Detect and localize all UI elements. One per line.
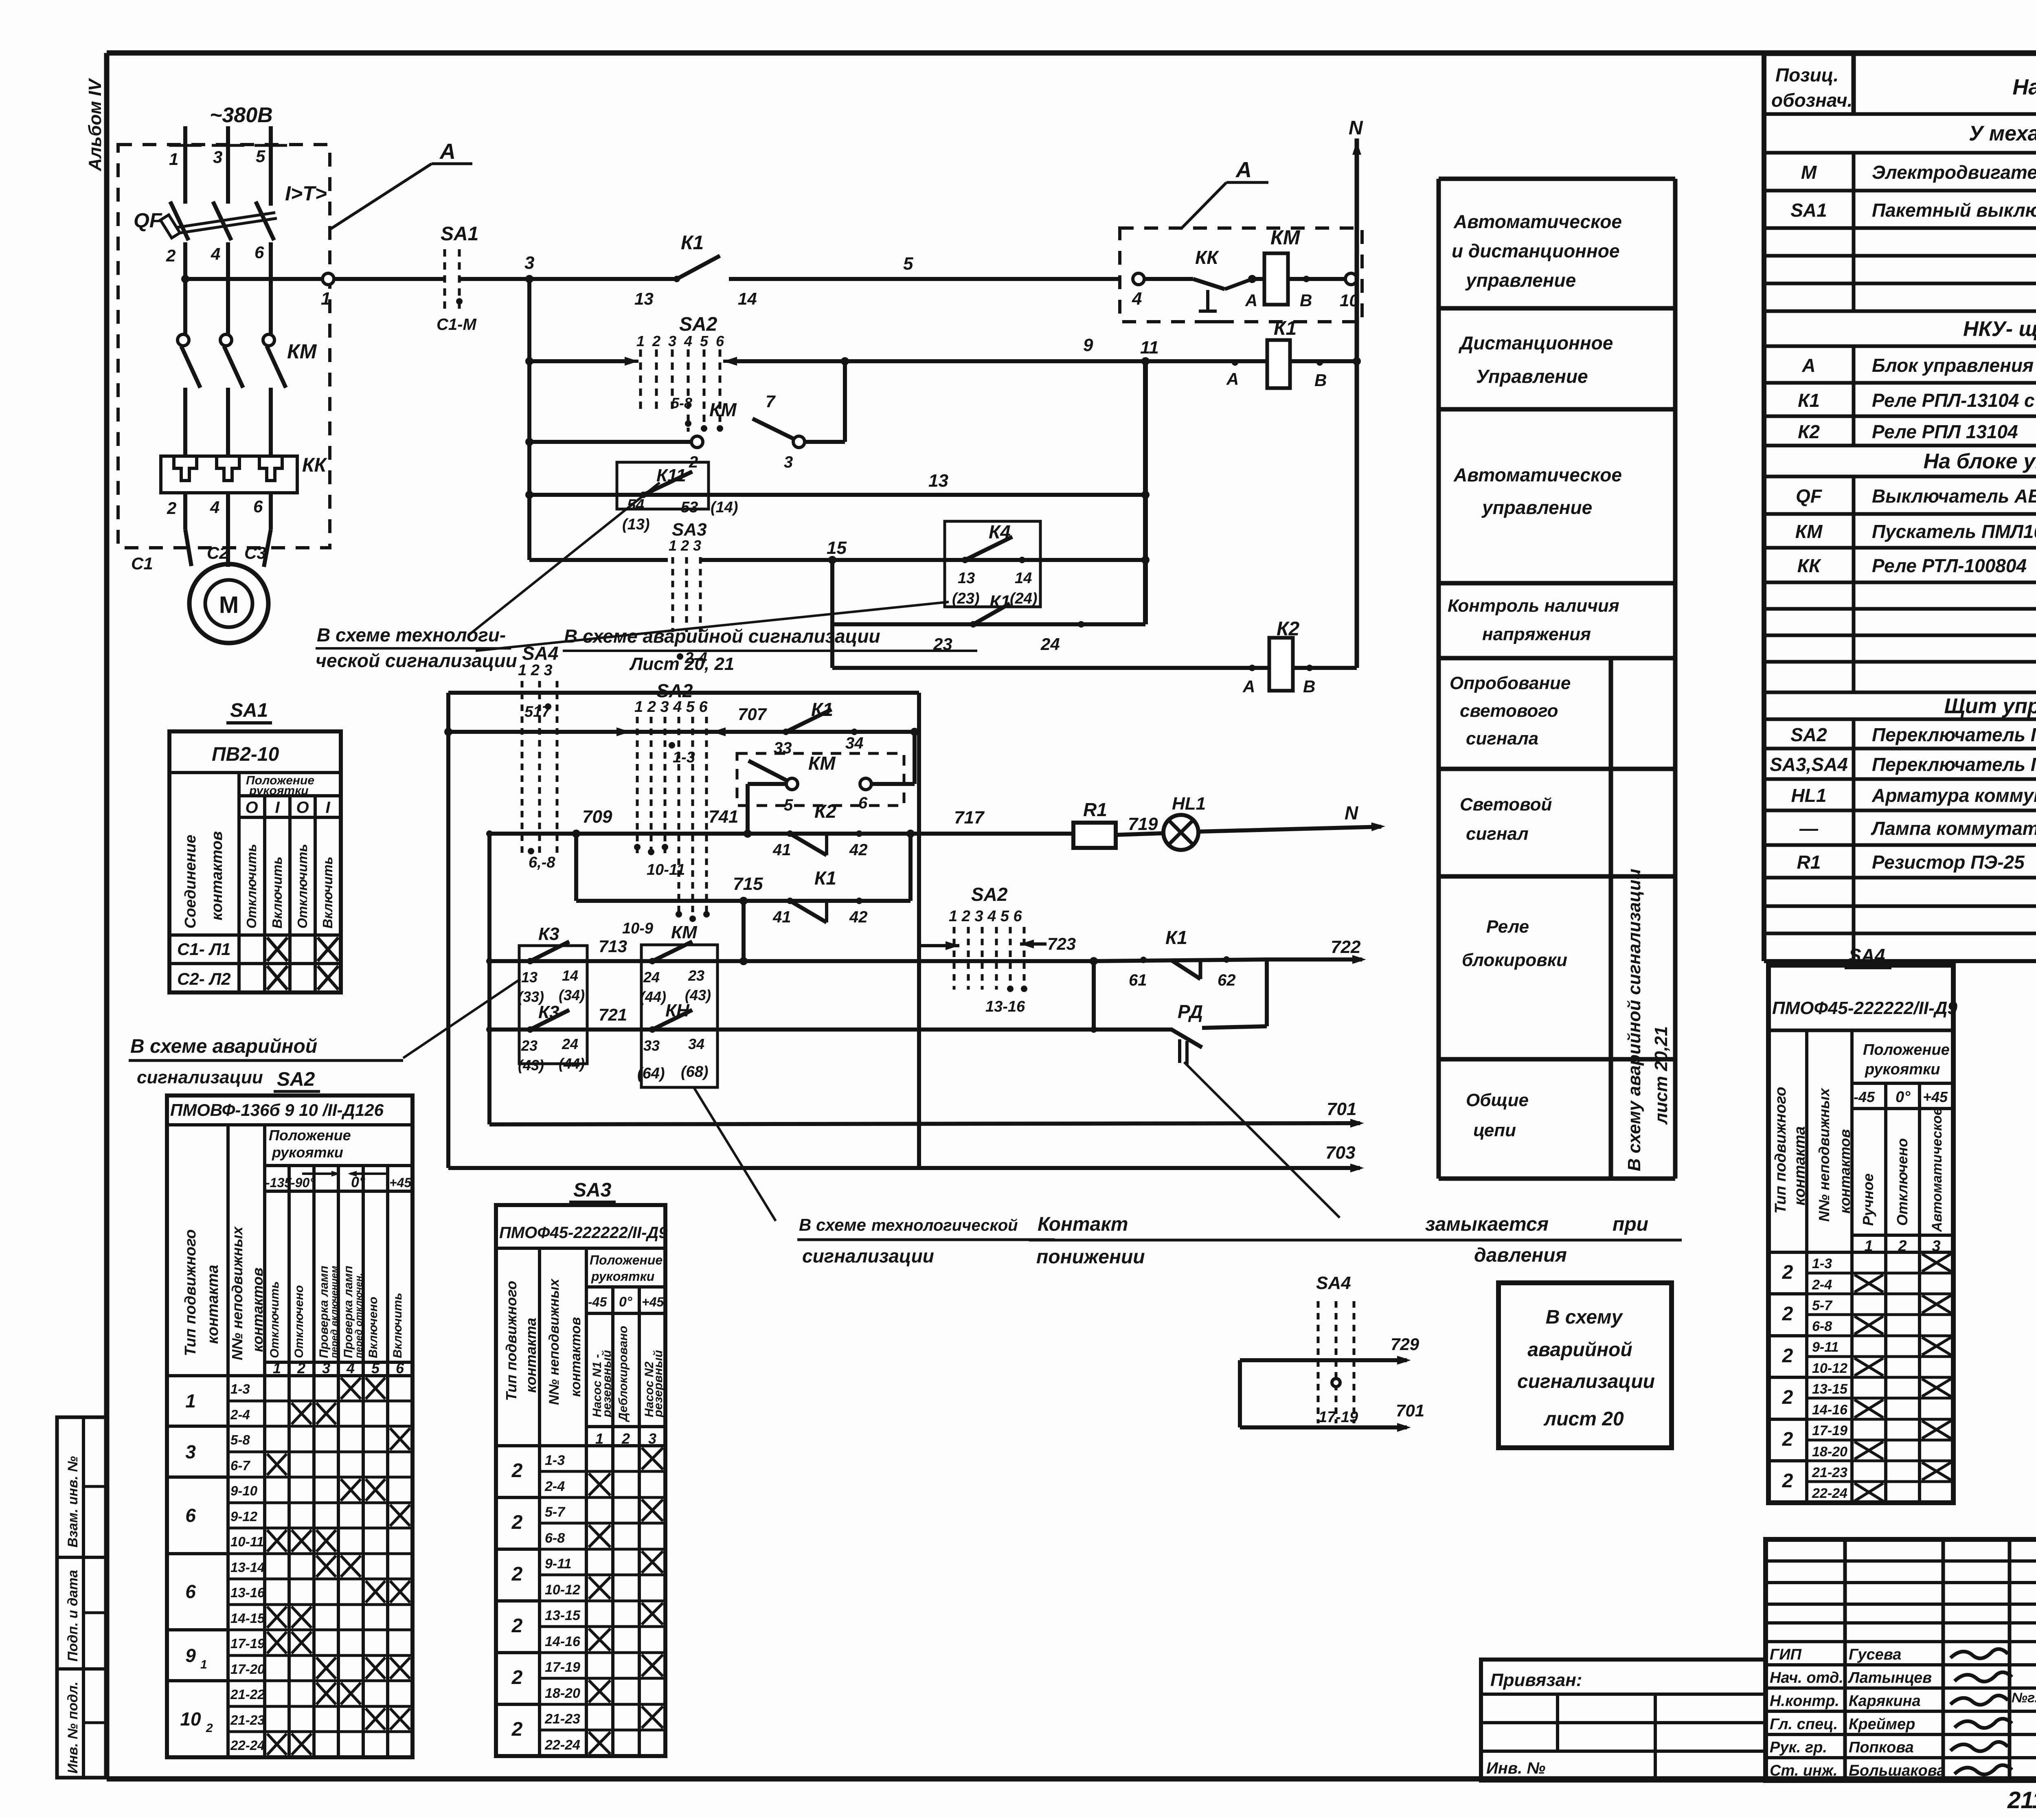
svg-text:13: 13 [928,471,948,491]
svg-text:6: 6 [185,1505,196,1526]
svg-text:QF: QF [1796,485,1823,507]
svg-text:SА1: SА1 [230,700,268,721]
svg-text:703: 703 [1325,1143,1355,1163]
svg-text:-135: -135 [265,1175,292,1190]
svg-text:SА2: SА2 [277,1069,315,1090]
contact KM seal-in 5-6 [737,753,904,806]
svg-text:К1: К1 [1165,927,1187,948]
svg-text:10-12: 10-12 [545,1582,580,1598]
svg-text:КМ: КМ [1270,226,1301,249]
svg-text:рукоятки: рукоятки [591,1269,654,1284]
svg-text:Большакова: Большакова [1849,1762,1945,1779]
svg-text:В схеме технологи-: В схеме технологи- [317,624,506,645]
svg-text:N№ неподвижных: N№ неподвижных [229,1226,246,1360]
wire rung 707 [448,730,919,734]
svg-text:Отключить: Отключить [295,844,310,929]
svg-text:717: 717 [954,808,985,828]
svg-text:контакта: контакта [1791,1126,1808,1205]
svg-text:Реле РПЛ-13104 с приставкой: Реле РПЛ-13104 с приставкой ПКЛ-1104 [1872,390,2036,411]
svg-text:С1- Л1: С1- Л1 [177,940,231,959]
svg-text:замыкается: замыкается [1425,1214,1549,1235]
svg-text:SА2: SА2 [679,314,717,335]
svg-text:Гл. спец.: Гл. спец. [1770,1716,1838,1733]
svg-text:5: 5 [903,254,913,274]
svg-text:К1: К1 [681,232,704,254]
svg-text:Переключатель ПМОФ45-222222: Переключатель ПМОФ45-222222 /II-Д9 [1872,754,2036,775]
svg-text:Отключено: Отключено [292,1285,306,1358]
svg-text:42: 42 [849,841,868,859]
function box column [1439,177,1675,181]
svg-text:2: 2 [297,1360,305,1377]
svg-text:61: 61 [1129,971,1147,989]
svg-text:21-23: 21-23 [544,1711,580,1727]
svg-text:2: 2 [1782,1345,1793,1367]
parts list table [1762,54,1766,961]
svg-text:Положение: Положение [269,1127,351,1144]
svg-text:2: 2 [511,1460,523,1482]
svg-text:управление: управление [1465,270,1576,291]
svg-text:сигнализации: сигнализации [1517,1371,1655,1392]
svg-text:R1: R1 [1083,799,1107,820]
svg-text:перед включением: перед включением [329,1266,340,1358]
svg-text:Тип подвижного: Тип подвижного [182,1229,199,1356]
svg-text:3: 3 [784,453,793,471]
svg-text:10-11: 10-11 [230,1534,264,1549]
svg-text:R1: R1 [1797,852,1821,873]
svg-text:Включено: Включено [366,1297,380,1358]
wire rung 715 [574,834,578,901]
svg-text:Выключатель АЕ2016-10НУЗ: Выключатель АЕ2016-10НУЗ [1872,485,2036,507]
svg-text:17-19: 17-19 [1812,1423,1847,1438]
svg-text:Гусева: Гусева [1849,1646,1901,1663]
svg-text:13-15: 13-15 [1812,1381,1848,1397]
svg-text:лист 20: лист 20 [1543,1408,1624,1430]
terminal 10 [1345,273,1357,285]
dashed enclosure QF block [118,145,330,548]
svg-text:сигнализации: сигнализации [802,1245,934,1267]
svg-text:А: А [1226,369,1239,389]
terminal 4 [1133,273,1144,285]
svg-text:3: 3 [213,147,222,167]
svg-text:17-19: 17-19 [545,1660,580,1675]
phase wire L2 [226,126,230,204]
svg-text:Резистор ПЭ-25: Резистор ПЭ-25 [1872,852,2025,873]
svg-text:6: 6 [254,243,264,262]
svg-text:(44): (44) [559,1055,585,1072]
svg-text:Рук. гр.: Рук. гр. [1770,1739,1827,1756]
svg-text:сигнал: сигнал [1466,824,1529,844]
wire 701 [487,834,491,1124]
coil KM [1252,277,1264,281]
svg-text:(13): (13) [622,516,650,533]
svg-text:701: 701 [1327,1099,1356,1119]
svg-text:1: 1 [169,149,178,169]
svg-text:22-24: 22-24 [230,1738,265,1753]
svg-text:5: 5 [784,796,793,814]
svg-text:14-16: 14-16 [1812,1402,1848,1418]
svg-text:21-22: 21-22 [230,1687,265,1702]
svg-text:53: 53 [681,499,698,516]
svg-text:№г.: №г. [2012,1690,2036,1706]
svg-text:при: при [1613,1214,1648,1235]
svg-text:ПМОВФ-136б 9 10 /II-Д126: ПМОВФ-136б 9 10 /II-Д126 [170,1100,384,1120]
leader РД note [1184,1062,1340,1218]
svg-text:Управление: Управление [1476,366,1588,387]
svg-text:2: 2 [167,498,176,518]
svg-text:К3: К3 [538,924,559,944]
svg-text:HL1: HL1 [1791,785,1827,806]
svg-text:23: 23 [688,967,704,984]
svg-text:13: 13 [634,289,654,308]
svg-text:6-7: 6-7 [230,1458,250,1473]
svg-text:41: 41 [772,908,791,926]
svg-text:14-15: 14-15 [230,1611,265,1626]
svg-text:1: 1 [273,1360,281,1377]
svg-text:1: 1 [321,289,331,309]
svg-text:5-8: 5-8 [671,395,692,411]
svg-text:1 2 3 4 5 6: 1 2 3 4 5 6 [634,698,708,716]
svg-text:21-23: 21-23 [230,1712,265,1728]
node 11 [1141,357,1150,365]
svg-text:3: 3 [668,333,676,349]
wire rung 9 [527,279,531,560]
svg-text:SА1: SА1 [1790,200,1827,221]
svg-text:5: 5 [371,1360,380,1377]
svg-text:КМ: КМ [671,922,698,942]
svg-text:707: 707 [738,705,767,724]
svg-text:Световой: Световой [1460,795,1552,814]
svg-text:1-3: 1-3 [545,1453,565,1468]
svg-text:14-16: 14-16 [545,1634,581,1649]
svg-text:5-8: 5-8 [230,1432,250,1447]
svg-text:6,-8: 6,-8 [529,854,555,871]
svg-text:Арматура коммутаторной ламп: Арматура коммутаторной лампы АСКМ-3 [1871,785,2036,806]
svg-text:Опробование: Опробование [1450,673,1571,693]
svg-text:Щит управления: Щит управления [1944,694,2036,718]
relay box K11 [617,462,709,509]
svg-text:К2: К2 [1798,421,1820,442]
svg-text:Ст. инж.: Ст. инж. [1770,1762,1838,1779]
svg-text:понижении: понижении [1036,1246,1145,1268]
svg-text:давления: давления [1474,1245,1567,1266]
wire rung 721 [489,1027,1094,1032]
svg-text:14: 14 [738,289,757,308]
svg-text:9-10: 9-10 [230,1483,258,1498]
coil K1 [1145,359,1357,363]
svg-text:С2- Л2: С2- Л2 [177,969,231,988]
svg-text:ПМОФ45-222222/II-Д9: ПМОФ45-222222/II-Д9 [1772,998,1957,1018]
svg-text:О: О [245,799,258,817]
svg-text:0°: 0° [619,1294,632,1310]
svg-text:ПМОФ45-222222/II-Д9: ПМОФ45-222222/II-Д9 [499,1224,668,1242]
relay box K4 [945,521,1040,607]
svg-text:-45: -45 [588,1295,607,1309]
svg-text:КМ: КМ [287,340,317,363]
svg-text:21-23: 21-23 [1812,1465,1847,1480]
svg-text:Отключить: Отключить [268,1281,281,1358]
svg-text:На блоке управления: На блоке управления [1924,450,2036,473]
svg-text:7: 7 [766,392,776,411]
svg-text:и дистанционное: и дистанционное [1452,240,1619,261]
node 15 [828,556,836,564]
svg-text:резервный: резервный [600,1350,614,1418]
svg-text:КК: КК [302,454,328,476]
wires KM to KK [183,388,187,456]
left margin strip [57,1417,107,1778]
svg-text:3: 3 [322,1360,330,1377]
svg-text:контактов: контактов [208,831,226,920]
svg-text:Н.контр.: Н.контр. [1770,1693,1839,1710]
pressure switch RD branch [1092,961,1096,1030]
svg-text:13-16: 13-16 [985,998,1025,1015]
svg-text:9-11: 9-11 [1812,1339,1839,1355]
svg-text:719: 719 [1128,814,1158,834]
svg-text:2: 2 [1782,1262,1793,1283]
svg-text:Соединение: Соединение [182,835,199,929]
box to alarm circuit sheet 20 [1498,1283,1672,1448]
svg-text:А: А [1235,158,1252,182]
svg-text:В: В [1300,291,1312,310]
svg-text:I: I [325,799,330,817]
wire [729,359,1145,363]
svg-text:+45: +45 [389,1175,412,1190]
svg-text:2-4: 2-4 [1812,1277,1832,1293]
svg-text:N: N [1345,802,1358,823]
svg-text:N№ неподвижных: N№ неподвижных [1816,1087,1832,1222]
phase wire L3 [269,126,273,206]
svg-text:18-20: 18-20 [1812,1444,1847,1460]
svg-text:рукоятки: рукоятки [249,784,309,797]
node A [1248,275,1256,283]
svg-text:цепи: цепи [1473,1120,1516,1140]
wire rung 15 [529,558,668,562]
svg-text:КМ: КМ [808,753,836,774]
svg-text:Ручное: Ручное [1860,1173,1876,1226]
wire [460,277,676,281]
svg-text:6-8: 6-8 [545,1530,565,1546]
svg-text:723: 723 [1047,934,1076,953]
svg-text:НКУ- щит 5Щ: НКУ- щит 5Щ [1963,317,2036,341]
svg-text:721: 721 [599,1005,627,1024]
svg-text:Дистанционное: Дистанционное [1458,332,1613,353]
svg-text:4: 4 [684,333,692,349]
svg-text:22-24: 22-24 [544,1737,580,1753]
svg-text:9: 9 [1083,335,1093,355]
svg-text:Блок управления БОУ5130-2: Блок управления БОУ5130-2674ГУХЛ4Б [1872,355,2036,376]
svg-text:33: 33 [643,1037,660,1054]
svg-text:В схеме: В схеме [799,1215,866,1234]
svg-text:722: 722 [1331,937,1361,957]
svg-text:3: 3 [185,1441,196,1462]
svg-text:аварийной: аварийной [1527,1339,1632,1361]
svg-text:Инв. № подл.: Инв. № подл. [65,1682,81,1774]
svg-text:15: 15 [827,538,847,558]
svg-text:N№ неподвижных: N№ неподвижных [546,1278,562,1405]
relay box KM/KN [641,945,717,1087]
vertical to rung 713 [742,901,746,961]
svg-text:С3: С3 [244,543,266,562]
svg-text:4: 4 [1132,289,1142,309]
svg-text:709: 709 [582,807,612,827]
svg-text:-90°: -90° [291,1175,315,1190]
wire rung K2 coil [832,666,1357,670]
svg-text:Позиц.: Позиц. [1775,64,1839,86]
svg-text:рукоятки: рукоятки [1865,1061,1940,1078]
svg-text:(23): (23) [952,590,980,607]
svg-text:Нач. отд.: Нач. отд. [1770,1669,1843,1686]
svg-text:729: 729 [1391,1335,1419,1354]
svg-text:Положение: Положение [1863,1041,1950,1058]
svg-text:О: О [296,799,309,817]
svg-text:(64): (64) [637,1065,665,1082]
svg-text:41: 41 [772,841,791,859]
svg-text:КМ: КМ [1795,521,1823,542]
wire rung 713 [489,959,1094,963]
svg-text:Карякина: Карякина [1849,1693,1921,1710]
svg-text:1: 1 [185,1390,196,1412]
svg-text:2: 2 [511,1719,523,1740]
svg-text:Переключатель ПМОВФ-136б 9 1: Переключатель ПМОВФ-136б 9 10 /II-Д126 [1872,724,2036,745]
svg-text:11: 11 [1140,338,1159,358]
svg-text:6: 6 [858,794,868,812]
svg-text:10-12: 10-12 [1812,1361,1847,1376]
leader tekhnologicheskoy-2 [694,1088,776,1221]
svg-text:А: А [1801,355,1815,376]
svg-text:715: 715 [733,874,763,894]
svg-text:Автоматическое: Автоматическое [1453,211,1622,232]
svg-text:блокировки: блокировки [1462,950,1567,970]
svg-text:23: 23 [521,1037,538,1054]
wire rung 23-24 [830,560,834,668]
svg-text:21192-12: 21192-12 [2007,1787,2036,1813]
svg-text:контактов: контактов [568,1317,584,1397]
svg-text:—: — [1799,818,1819,839]
svg-text:(34): (34) [559,987,585,1003]
svg-text:напряжения: напряжения [1482,624,1591,644]
svg-text:(14): (14) [711,499,738,516]
svg-text:Лампа коммутаторная КМ6: Лампа коммутаторная КМ60-55 [1871,818,2036,839]
svg-text:9-11: 9-11 [545,1556,572,1572]
svg-text:24: 24 [562,1036,578,1052]
svg-text:701: 701 [1396,1401,1424,1420]
privyazan box [1481,1660,1766,1780]
thermal relay KK heater box [161,456,297,493]
block outline [448,691,919,695]
svg-text:4: 4 [211,244,220,263]
svg-text:6: 6 [185,1581,196,1602]
wire 701 to sheet 20 [1238,1360,1242,1427]
svg-text:КМ: КМ [709,399,737,420]
svg-text:I>Т>: I>Т> [285,182,327,205]
svg-text:1: 1 [636,333,645,349]
svg-text:К2: К2 [814,801,836,822]
svg-text:С1: С1 [131,554,153,573]
svg-text:А: А [1242,677,1255,696]
svg-text:QF: QF [134,209,162,232]
svg-text:Отключено: Отключено [1894,1138,1911,1226]
svg-text:технологической: технологической [871,1216,1018,1234]
svg-text:2: 2 [1782,1303,1793,1325]
svg-text:В схеме аварийной сигнал: В схеме аварийной сигнализации [564,626,880,647]
svg-text:22-24: 22-24 [1812,1486,1847,1501]
contact K1 61-62 [1094,959,1267,961]
svg-text:713: 713 [599,937,627,956]
svg-text:2: 2 [511,1563,523,1585]
wire 729 [1262,1358,1407,1362]
svg-text:13: 13 [521,969,538,986]
svg-text:(24): (24) [1010,590,1038,607]
svg-text:А: А [439,139,456,164]
svg-text:2: 2 [652,333,660,349]
title block stamp [1766,1539,2036,1780]
svg-text:517: 517 [524,703,551,720]
svg-text:1-3: 1-3 [673,749,695,766]
svg-text:-45: -45 [1854,1089,1875,1105]
svg-text:В: В [1314,371,1327,390]
svg-text:1 2 3: 1 2 3 [518,662,553,679]
svg-text:13-16: 13-16 [230,1585,265,1600]
svg-text:ческой сигнализации: ческой сигнализации [316,650,517,671]
svg-text:Положение: Положение [590,1253,663,1267]
svg-text:5-7: 5-7 [1812,1298,1833,1313]
svg-text:Креймер: Креймер [1849,1716,1915,1733]
svg-text:ГИП: ГИП [1770,1646,1802,1663]
svg-text:В схеме аварийной: В схеме аварийной [130,1036,317,1057]
svg-text:2-4: 2-4 [544,1479,565,1494]
svg-text:2: 2 [511,1615,523,1637]
svg-text:Включить: Включить [270,856,285,929]
svg-text:сигнализации: сигнализации [137,1067,263,1087]
svg-text:6: 6 [253,497,263,516]
svg-text:Попкова: Попкова [1849,1739,1914,1756]
svg-text:14: 14 [1015,570,1032,587]
svg-text:17-20: 17-20 [230,1662,265,1677]
svg-text:5: 5 [700,333,709,349]
svg-text:2: 2 [166,246,176,265]
svg-text:~380В: ~380В [210,103,273,127]
svg-text:Контроль наличия: Контроль наличия [1448,596,1619,616]
svg-text:Альбом IV: Альбом IV [85,78,105,171]
svg-text:Пакетный выключатель ПВ2-1: Пакетный выключатель ПВ2-10/У35Б [1872,200,2036,221]
svg-text:1-3: 1-3 [1812,1256,1832,1271]
svg-text:2: 2 [511,1667,523,1688]
svg-text:HL1: HL1 [1172,794,1206,814]
svg-text:Деблокировано: Деблокировано [617,1326,630,1423]
svg-text:С1-М: С1-М [437,316,477,334]
svg-text:Тип подвижного: Тип подвижного [1772,1087,1789,1214]
leader technologicheskoy [468,483,660,635]
svg-text:1: 1 [200,1658,207,1671]
svg-text:Общие: Общие [1466,1090,1529,1110]
svg-text:4: 4 [346,1360,355,1377]
motor M [189,564,268,643]
phase wire L1 [183,126,187,204]
svg-text:0°: 0° [351,1174,365,1190]
svg-text:SА1: SА1 [441,223,478,245]
svg-text:С2: С2 [207,543,229,562]
svg-text:13-15: 13-15 [545,1608,581,1623]
svg-text:(44): (44) [640,988,666,1005]
svg-text:светового: светового [1460,701,1558,721]
svg-text:13: 13 [958,570,975,587]
svg-text:17-19: 17-19 [230,1636,265,1651]
svg-text:Взам. инв. №: Взам. инв. № [65,1456,81,1548]
svg-text:1 2 3 4 5 6: 1 2 3 4 5 6 [949,908,1022,925]
svg-text:Отключить: Отключить [244,844,259,929]
svg-text:Автоматическое: Автоматическое [1453,464,1622,485]
wire 722 [1267,957,1362,962]
svg-text:А: А [1245,291,1257,310]
